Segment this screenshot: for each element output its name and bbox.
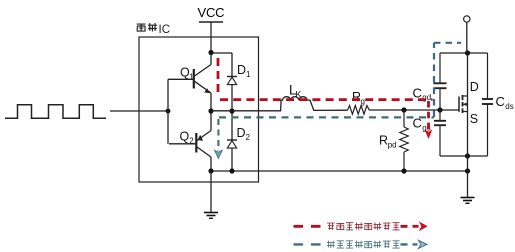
node D2 bottom	[229, 168, 234, 173]
wire VCC down into box	[210, 22, 212, 53]
node D1/D2 on output wire	[229, 108, 234, 113]
svg-text:ds: ds	[505, 102, 513, 111]
Q1 emitter arrow	[204, 88, 210, 93]
red turn-on current path vertical in driver	[217, 58, 220, 97]
legend text turn-off	[327, 241, 400, 248]
svg-text:K: K	[295, 89, 301, 99]
teal path vertical at driver	[217, 119, 219, 151]
VCC rail bar	[199, 21, 223, 23]
transistor Q1	[168, 53, 211, 112]
node Rpd top	[401, 107, 406, 112]
svg-text:R: R	[379, 134, 388, 148]
ground right	[461, 198, 475, 204]
return wire bottom	[211, 170, 468, 172]
input base node	[166, 109, 171, 114]
node VCC junction	[208, 50, 213, 55]
transistor Q2	[169, 111, 211, 171]
resistor Rpd	[400, 110, 408, 171]
input square wave signal	[5, 105, 106, 119]
svg-text:D: D	[237, 126, 246, 140]
svg-text:IC: IC	[159, 24, 171, 36]
legend red dashes right	[401, 225, 419, 228]
svg-text:2: 2	[246, 133, 251, 142]
node Rpd bottom	[401, 168, 406, 173]
capacitor Cds	[482, 53, 493, 156]
legend text turn-on	[327, 223, 400, 230]
MOSFET U1	[459, 53, 468, 156]
legend red arrow	[419, 221, 428, 231]
wire base vertical	[167, 79, 169, 144]
MOSFET body arrow	[463, 103, 467, 107]
legend teal dashes right	[401, 243, 418, 245]
legend teal arrow	[418, 240, 427, 248]
svg-text:C: C	[496, 94, 505, 109]
capacitor Cgs	[434, 110, 446, 156]
MOSFET source rail	[440, 155, 488, 157]
red path vertical at Cgs	[427, 101, 430, 130]
teal arrow down	[215, 150, 223, 158]
Q2 emitter arrow (points into base)	[198, 135, 204, 141]
output node Q1/Q2	[208, 108, 213, 113]
node source/ground	[465, 168, 470, 173]
svg-text:D: D	[237, 63, 246, 77]
diode D2	[227, 111, 237, 171]
diode D1	[227, 53, 237, 111]
svg-text:pd: pd	[388, 141, 397, 150]
red arrow down	[425, 130, 433, 139]
svg-text:VCC: VCC	[198, 5, 225, 20]
node source rail	[465, 153, 470, 158]
wire Rg to gate	[371, 109, 459, 111]
drain terminal circle	[464, 16, 470, 22]
teal path vertical at MOSFET	[433, 43, 435, 117]
main gate wire with inductor Lk	[211, 97, 348, 111]
wire input to driver	[110, 110, 168, 112]
teal path top at MOSFET	[434, 42, 461, 44]
node gate capacitors	[437, 107, 442, 112]
teal turn-off path horizontal	[219, 116, 434, 118]
svg-text:Q: Q	[180, 130, 190, 144]
node Q2 collector bottom	[208, 168, 213, 173]
legend red dashes left	[294, 225, 325, 228]
resistor Rg zigzag	[348, 106, 372, 115]
ground under driver	[204, 213, 218, 219]
wire source rail to ground	[467, 156, 469, 198]
svg-text:D: D	[470, 80, 479, 94]
wire driver to ground	[210, 171, 212, 212]
svg-text:g: g	[361, 97, 365, 106]
red turn-on current path horizontal	[220, 98, 433, 101]
label 驱动IC	[137, 23, 157, 31]
MOSFET drain rail	[440, 52, 488, 54]
wire rail to D1	[211, 52, 232, 54]
driver IC box	[139, 37, 259, 182]
capacitor Cgd	[434, 53, 447, 110]
node drain rail	[465, 50, 470, 55]
svg-text:1: 1	[246, 70, 251, 79]
svg-text:S: S	[470, 112, 478, 126]
wire terminal to drain rail	[466, 22, 468, 53]
legend teal dashes left	[294, 243, 325, 245]
